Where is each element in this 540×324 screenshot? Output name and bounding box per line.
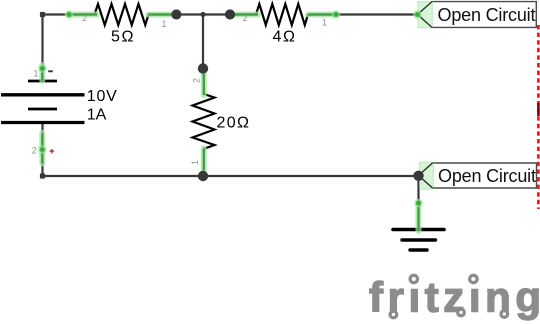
svg-text:2: 2: [243, 13, 248, 23]
svg-text:1: 1: [190, 160, 200, 165]
svg-text:10V: 10V: [87, 88, 117, 105]
svg-text:1A: 1A: [87, 106, 107, 123]
svg-text:20Ω: 20Ω: [217, 115, 250, 132]
svg-text:2: 2: [82, 13, 87, 23]
svg-text:1: 1: [322, 18, 327, 28]
svg-text:4Ω: 4Ω: [273, 29, 296, 46]
svg-text:2: 2: [32, 146, 37, 156]
svg-text:Open Circuit: Open Circuit: [438, 166, 536, 186]
svg-text:1: 1: [162, 19, 167, 29]
svg-text:Open Circuit: Open Circuit: [438, 5, 536, 25]
svg-text:5Ω: 5Ω: [111, 29, 134, 46]
svg-text:1: 1: [34, 69, 39, 79]
svg-text:2: 2: [192, 78, 202, 83]
